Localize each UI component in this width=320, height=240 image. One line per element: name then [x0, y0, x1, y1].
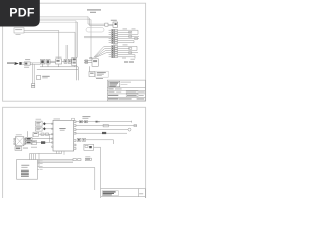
svg-text:PDF: PDF: [9, 6, 35, 20]
